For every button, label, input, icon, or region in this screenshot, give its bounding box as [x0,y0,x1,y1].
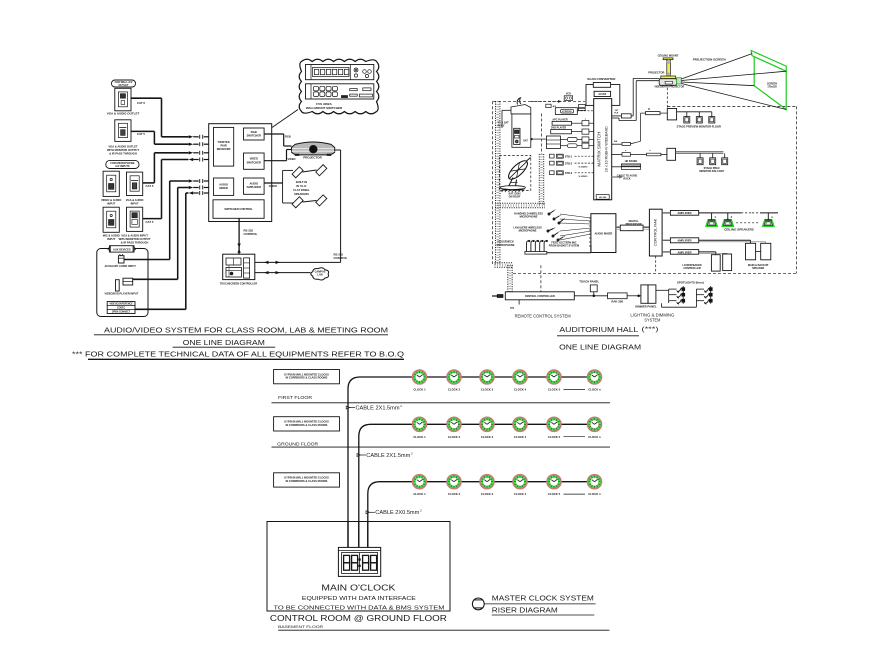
matrix switch 16x16 RGBHV wideband [594,99,612,200]
spotlight cluster 1 [682,286,684,292]
source: STB-1 [550,154,555,158]
svg-text:CLOCK 4: CLOCK 4 [514,388,527,392]
wires media rack to matrix [577,139,582,141]
riser cable [359,424,595,547]
wire controller to RAK box [574,295,607,297]
clocks [413,475,427,489]
svg-text:WALLMOUNT SWITCHER: WALLMOUNT SWITCHER [306,106,343,110]
wire CAT 5 from plate 4 [143,182,155,184]
panel: wallplate switcher front view [306,65,374,80]
input pins video group [189,135,194,138]
wire satellite to sources [531,138,547,140]
attenuator on preview feed [646,112,661,115]
svg-text:*** FOR COMPLETE TECHNICAL DAT: *** FOR COMPLETE TECHNICAL DATA OF ALL E… [72,350,404,359]
svg-text:CABLE 2X0.5mm: CABLE 2X0.5mm [375,510,419,516]
svg-text:RECV: RECV [498,125,505,128]
wire deck to matrix [577,110,593,112]
wire controller to LAN cloud [255,272,311,274]
svg-text:AUDIO/VIDEO SYSTEM FOR CLASS R: AUDIO/VIDEO SYSTEM FOR CLASS ROOM, LAB &… [104,326,388,335]
interface box deck [578,105,585,108]
svg-text:CENTRAL CONTROLLER: CENTRAL CONTROLLER [525,295,555,298]
unit: RGB switcher [244,128,265,140]
svg-text:VIDEO/DVD PLAYER INPUT: VIDEO/DVD PLAYER INPUT [105,292,139,296]
connector: video/DVD player input [116,280,120,291]
svg-text:GYPSUM WALL MOUNTED CLOCKS: GYPSUM WALL MOUNTED CLOCKS [284,372,329,376]
svg-text:VIDEO: VIDEO [288,157,296,161]
stage preview monitors row 2 [676,151,724,153]
amplifier 3 [670,250,698,255]
svg-text:MICROPHONE: MICROPHONE [519,229,537,233]
svg-text:S-VIDEO: S-VIDEO [579,167,588,169]
scan converter enclosure [586,85,620,106]
svg-text:FLAT PANEL: FLAT PANEL [293,188,310,192]
svg-text:AUDIO: AUDIO [219,183,228,187]
svg-text:CABLE 2X1.5mm: CABLE 2X1.5mm [356,405,400,411]
input pin monitor out (reverse arrow) [189,158,194,161]
stage preview junction box 1 [667,109,676,120]
svg-text:LIGHTING & DIMMING: LIGHTING & DIMMING [630,312,674,317]
projection screen (green) [751,51,786,110]
svg-text:VCR: VCR [566,94,571,96]
svg-text:CAT 5: CAT 5 [137,132,145,136]
svg-text:& IR PASS THROUGH: & IR PASS THROUGH [109,151,137,155]
wire rack dashed down [655,256,657,273]
clocks [413,417,427,431]
svg-text:PS: PS [510,306,514,310]
svg-text:SYSTEM: SYSTEM [644,318,660,323]
svg-text:WITH MONITOR OUTPUT: WITH MONITOR OUTPUT [107,148,139,152]
auxiliary equipment enclosure box [97,249,148,317]
svg-text:IN CORRIDORS & CLASS ROOMS: IN CORRIDORS & CLASS ROOMS [286,376,328,380]
svg-text:AUDIO: AUDIO [269,184,277,188]
svg-text:AUX DEVICES: AUX DEVICES [113,248,131,252]
ceiling speaker n [763,220,774,226]
unit: audio amplifier [244,178,265,194]
ceiling speakers drops [711,213,713,220]
svg-text:SPOTLIGHTS (6nos): SPOTLIGHTS (6nos) [677,280,704,284]
riser cable [348,377,595,547]
matrix output: preview feed 2 [612,153,622,155]
connector: auxiliary audio input [118,256,124,263]
RAK 30K interface [608,293,628,299]
amplifier 2 [670,238,698,243]
svg-text:CLOCK 3: CLOCK 3 [481,492,494,496]
amplifier 1 [670,211,698,216]
ceiling speaker 2 [722,220,733,226]
label box: clocks group [274,473,340,487]
svg-text:VIDEOCONFERENCE: VIDEOCONFERENCE [109,303,133,305]
svg-text:CLOCK n: CLOCK n [588,435,601,439]
riser cables into main clock [347,522,349,548]
dashed room boundary top left [493,100,585,102]
svg-text:STB-1: STB-1 [565,156,573,159]
svg-text:EQUIPPED WITH DATA INTERFACE: EQUIPPED WITH DATA INTERFACE [302,596,417,602]
wall plate: VGA & audio outlet 1 [115,88,131,111]
svg-text:RACK: RACK [624,178,631,181]
svg-text:R: R [648,108,650,111]
cloud: campus LAN [311,268,329,280]
wire CAT 6 from plate 1 [131,97,162,99]
svg-text:DA: DA [614,140,618,143]
section: master clock system riser diagram [267,370,610,631]
source: STB-3 [550,171,555,175]
svg-text:CODEC: CODEC [117,307,126,309]
svg-text:IN 'CLG': IN 'CLG' [296,184,307,188]
svg-text:INPUT: INPUT [107,201,115,205]
main AV switcher cabinet [209,124,272,222]
svg-text:& IR PASS THROUGH: & IR PASS THROUGH [121,240,149,244]
wire amp3 to loudspeaker controller [699,251,716,253]
unit: wired RGB receiver [214,127,234,166]
main & backup speaker units [746,243,756,259]
svg-text:GROUND FLOOR: GROUND FLOOR [277,441,319,446]
projector (classroom) [292,142,335,156]
svg-text:AUDIO MIXER: AUDIO MIXER [594,232,612,236]
matrix output to projector: RGB feed [621,114,631,118]
svg-text:CAT 5: CAT 5 [146,220,154,224]
svg-text:ON ROOF: ON ROOF [509,196,521,199]
svg-text:VIDEO: VIDEO [250,157,258,161]
svg-text:CLOCK 5: CLOCK 5 [548,492,561,496]
control room enclosure [267,522,450,612]
svg-text:SWITCHER: SWITCHER [247,160,261,164]
svg-text:AUDITORIUM HALL: AUDITORIUM HALL [559,325,638,334]
svg-text:CLOCK 2: CLOCK 2 [448,492,461,496]
svg-text:IN CORRIDORS & CLASS ROOMS: IN CORRIDORS & CLASS ROOMS [286,479,328,483]
dimmer panel [641,285,648,303]
section: audio/video system for class room one line diagram [72,59,404,359]
svg-text:SAT: SAT [523,140,528,143]
wire RGB to projector [264,133,284,135]
wire from video/DVD input [133,278,178,280]
svg-text:CLOCK 1: CLOCK 1 [413,435,426,439]
svg-text:PROJECTION SCREEN: PROJECTION SCREEN [693,58,726,62]
svg-text:CLOCK 5: CLOCK 5 [548,435,561,439]
wall plate: VGA & audio input with monitor output [127,207,143,231]
section: auditorium hall one line diagram [492,51,796,352]
panel: switcher rear view [306,84,374,99]
svg-text:LAN: LAN [317,274,322,277]
stage preview junction box 2 [667,148,676,160]
wire audio to speakers [264,182,283,184]
svg-text:RAK 30K: RAK 30K [611,300,623,304]
svg-text:INPUT: INPUT [107,237,115,241]
svg-text:HD BASED: HD BASED [625,160,638,163]
cable size label [346,406,350,409]
svg-text:170x228: 170x228 [767,86,777,89]
svg-text:REMOTE CONTROL SYSTEM: REMOTE CONTROL SYSTEM [515,314,571,319]
svg-text:IN CORRIDORS & CLASS ROOMS: IN CORRIDORS & CLASS ROOMS [286,423,328,427]
wire CAT 5 from plate 2 [131,130,154,132]
svg-text:INPUT: INPUT [131,201,139,205]
svg-text:RISER DIAGRAM: RISER DIAGRAM [492,605,558,614]
svg-text:VGA & AUDIO OUTLET: VGA & AUDIO OUTLET [108,145,138,149]
svg-text:AMPLIFIER: AMPLIFIER [678,211,692,215]
riser cable [368,482,595,548]
svg-text:BASEMENT FLOOR: BASEMENT FLOOR [278,624,323,629]
svg-text:TO BE CONNECTED WITH DATA & B: TO BE CONNECTED WITH DATA & BMS SYSTEM [274,605,445,611]
satellite dish [500,158,530,193]
wire amp1 to ceiling speakers [699,212,741,214]
wire lectern mics to mixer [547,252,591,254]
label pill: aux inputs [110,246,135,252]
dashed boundary top right (projection area) [667,105,796,107]
unit: audio mixer [214,178,234,195]
cloud callout: equipment detail [299,59,379,114]
wire mixer to processor [616,226,620,228]
svg-text:CLOCK 4: CLOCK 4 [514,492,527,496]
svg-text:PROJECTOR: PROJECTOR [303,156,322,160]
cable size label [357,454,361,457]
source: STB-2 [550,161,555,165]
dashed drop from boundary to central controller [540,265,542,292]
svg-text:RGB: RGB [251,130,257,134]
spotlight cluster 2 [710,286,712,292]
svg-text:CLOCK n: CLOCK n [588,388,601,392]
svg-text:TOUCHSCREEN CONTROLLER: TOUCHSCREEN CONTROLLER [220,282,258,285]
projector assembly (auditorium) [648,53,684,88]
svg-text:CLOCK 3: CLOCK 3 [481,435,494,439]
svg-text:FIRST FLOOR: FIRST FLOOR [278,395,313,400]
dashed continuation between speakers [736,222,759,224]
svg-text:OPEN CONNECT: OPEN CONNECT [112,311,131,313]
stage preview monitors row 1 [677,111,712,113]
svg-text:VIDEO/DATA PROJECTOR: VIDEO/DATA PROJECTOR [654,86,684,89]
label pill: AV wall plate outlet [112,80,136,87]
gooseneck mic tray [525,252,547,255]
central controller bar [505,292,574,300]
dashed room boundary left [492,101,494,264]
svg-text:STAGE PREVIEW MONITOR-FLOOR: STAGE PREVIEW MONITOR-FLOOR [677,125,721,129]
wall band elbow bottom [495,262,514,264]
svg-text:DIMMER PANEL: DIMMER PANEL [635,305,657,309]
wire APC to matrix [572,122,583,124]
wall band left vertical [495,101,497,265]
svg-text:CLOCK n: CLOCK n [588,492,601,496]
svg-text:CONTROL RAK: CONTROL RAK [654,218,658,246]
TV & satellite receiver rack [511,98,531,148]
svg-text:CLOCK 5: CLOCK 5 [548,388,561,392]
svg-text:AMPLIFIER: AMPLIFIER [678,250,692,254]
wall plate: mic & audio input [103,207,119,232]
svg-text:RGB: RGB [285,135,291,139]
svg-text:S-VIDEO: S-VIDEO [579,176,588,178]
svg-text:AUXILIARY AUDIO INPUT: AUXILIARY AUDIO INPUT [105,264,137,268]
svg-text:AUDIO: AUDIO [249,182,258,186]
label box: clocks group [274,417,340,431]
svg-text:PROJECTOR: PROJECTOR [648,71,664,75]
wall band horizontal below matrix [495,202,545,204]
svg-text:CAT 6: CAT 6 [137,101,145,105]
clocks [413,370,427,384]
basement floor line [278,629,609,631]
svg-text:CLOCK 2: CLOCK 2 [448,435,461,439]
svg-text:FROM BASKET SYSTEM: FROM BASKET SYSTEM [549,244,579,248]
svg-text:CONTROLLER: CONTROLLER [683,267,701,270]
legend: master clock symbol [472,598,484,610]
wire DVD to matrix [572,131,583,133]
svg-text:ONE LINE DIAGRAM: ONE LINE DIAGRAM [183,338,265,347]
wall band drop to controller [507,265,509,292]
label box: clocks group [274,370,340,384]
input pin codec (reverse arrow) [189,191,194,194]
svg-text:BUILT-IN: BUILT-IN [296,180,307,184]
svg-text:AMPLIFIER: AMPLIFIER [247,185,262,189]
wall plate: video & audio input [103,171,119,196]
svg-text:MICROPHONE: MICROPHONE [497,243,515,247]
svg-text:CLOCK 1: CLOCK 1 [413,388,426,392]
svg-text:RECEIVER: RECEIVER [217,147,231,151]
wire processor to control rack [643,226,649,228]
svg-text:CLOCK 1: CLOCK 1 [413,492,426,496]
svg-text:(***): (***) [642,326,659,333]
dashed drop projector to junction [666,88,668,109]
dashed line above band [541,114,543,155]
svg-text:OUTLET: OUTLET [119,84,129,87]
projection beam lines [681,54,752,79]
svg-text:CONTROL: CONTROL [244,232,258,236]
svg-text:SWITCHER CONTROL: SWITCHER CONTROL [224,207,253,211]
audio mixer (auditorium) [591,214,616,253]
svg-text:CAT 5: CAT 5 [146,184,154,188]
source: media rack with outputs [546,136,560,149]
cable size label [366,511,370,514]
svg-text:AV-300: AV-300 [599,196,607,199]
svg-text:TOUCH PANEL: TOUCH PANEL [579,279,599,283]
svg-text:STB-2: STB-2 [565,163,573,166]
label: cable to audio rack [612,176,621,178]
satellite dish enclosure [499,155,531,190]
dashed AV feed from rack [531,100,561,102]
svg-text:SPEAKERS: SPEAKERS [294,192,309,196]
svg-text:CONTROL ROOM @ GROUND FLOOR: CONTROL ROOM @ GROUND FLOOR [270,614,447,623]
svg-text:SCAN CONVERTER: SCAN CONVERTER [587,77,616,81]
source: VCR icon [564,94,572,101]
unit: switcher control [213,200,264,219]
svg-text:SWITCHER: SWITCHER [247,133,261,137]
matrix bottom module AV-300 [596,195,609,200]
power stub [497,295,503,298]
input pins audio group [189,179,194,182]
svg-text:MICROPHONE: MICROPHONE [520,215,538,219]
svg-text:PAIR: PAIR [220,144,226,148]
source: DVD/VCR deck [546,104,578,114]
svg-text:TWISTED: TWISTED [218,140,230,144]
svg-text:CEILING MOUNT: CEILING MOUNT [658,53,679,57]
wire RS-232 long run from projector [335,149,341,151]
rack: video conference / codec unit [107,302,135,314]
svg-text:CLOCK 3: CLOCK 3 [481,388,494,392]
wire TV to matrix area [502,109,511,111]
svg-text:MONITOR-BALCONY: MONITOR-BALCONY [699,170,724,173]
svg-text:SPEAKER: SPEAKER [752,267,764,270]
wall plate: VGA & audio input (CAT 5) [127,172,143,195]
svg-text:CONTROL: CONTROL [334,256,348,260]
svg-text:FLR: FLR [614,112,618,114]
svg-text:A/V INPUTS: A/V INPUTS [115,164,130,168]
svg-text:APC PLAYER: APC PLAYER [552,118,567,121]
projector body (auditorium) [661,76,676,79]
svg-text:AMPLIFIER: AMPLIFIER [678,239,692,243]
speakers: built-in ceiling speakers (4) [292,167,303,178]
svg-text:CLOCK 4: CLOCK 4 [514,435,527,439]
svg-text:GYPSUM WALL MOUNTED CLOCKS: GYPSUM WALL MOUNTED CLOCKS [284,420,329,424]
svg-text:MASTER CLOCK SYSTEM: MASTER CLOCK SYSTEM [492,594,594,603]
mic feed lines to mixer [560,214,591,218]
svg-text:MATRIX SWITCH: MATRIX SWITCH [597,132,602,167]
svg-text:16 x 16 RGBHV WIDEBAND: 16 x 16 RGBHV WIDEBAND [605,126,609,172]
svg-text:GYPSUM WALL MOUNTED CLOCKS: GYPSUM WALL MOUNTED CLOCKS [284,476,329,480]
callout leader line [272,110,298,128]
wall band vertical right of sources [538,154,540,206]
control rack [649,209,662,256]
ceiling speaker 1 [706,220,717,226]
wire CAT 5 from plate 6 (monitor out) [143,218,162,220]
svg-text:CABLE 2X1.5mm: CABLE 2X1.5mm [366,453,410,459]
wire from rack [135,308,186,310]
svg-text:MAIN O'CLOCK: MAIN O'CLOCK [321,584,396,593]
svg-text:MIXER: MIXER [219,186,228,190]
svg-text:AV-200: AV-200 [598,93,606,96]
svg-text:CEILING SPEAKERS: CEILING SPEAKERS [724,228,754,232]
dashed boundary right [795,106,797,273]
main o'clock digital display [338,547,380,576]
wire amp2 to main & backup [699,239,751,241]
svg-text:VGA & AUDIO OUTLET: VGA & AUDIO OUTLET [107,112,140,116]
svg-text:VCR/DVD: VCR/DVD [562,111,572,113]
touch panel controller [223,254,255,279]
wire RS-232 from switcher control to touch controller [238,218,240,254]
projector ceiling mount bracket [663,58,673,60]
wire video to projector [264,160,286,162]
dashed boundary bottom [513,272,796,274]
wire to dimmer panel [627,295,641,297]
seven segment digits 88:88 [344,555,350,562]
matrix output: preview feed 1 [612,143,622,145]
svg-text:ONE LINE DIAGRAM: ONE LINE DIAGRAM [559,343,641,352]
label pill: for microphone A/V inputs [106,160,139,168]
svg-text:CLOCK 2: CLOCK 2 [448,388,461,392]
wire from aux audio input [124,259,170,261]
loudspeaker controller units [711,255,720,271]
svg-text:STB-3: STB-3 [565,172,573,175]
wall plate: VGA & audio outlet 2 [115,120,131,142]
unit: video switcher [244,153,265,169]
